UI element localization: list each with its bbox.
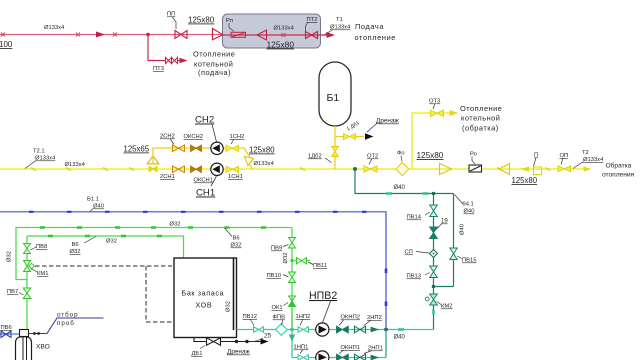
pump SN2 (211, 142, 223, 154)
svg-text:Б1: Б1 (327, 92, 340, 104)
valve PV12 (254, 327, 264, 333)
svg-text:1 Дб1: 1 Дб1 (346, 120, 361, 133)
wire green line B6 lower y=236 (27, 236, 184, 258)
svg-text:проб: проб (57, 320, 75, 327)
leader B6 left (84, 237, 96, 244)
svg-text:Отопление: Отопление (193, 50, 235, 59)
leader Ro (472, 157, 475, 165)
node drain junctions (235, 340, 238, 343)
flow arrow after PT3 (178, 60, 181, 62)
svg-text:котельной: котельной (461, 114, 500, 123)
svg-text:Т2: Т2 (582, 150, 589, 156)
svg-text:ПП: ПП (167, 12, 175, 18)
check valve OKSN1 (filled) (191, 166, 202, 173)
svg-text:ПВ9: ПВ9 (271, 246, 282, 252)
wire PV6 inlet (0, 333, 19, 335)
valve 2NP2 (355, 326, 366, 333)
svg-text:19: 19 (441, 219, 448, 225)
wire red branch down to PT3 (148, 35, 165, 61)
svg-text:125x80: 125x80 (417, 151, 444, 160)
reducer (apex left) (499, 164, 510, 175)
leader 1SN2 (231, 139, 234, 144)
svg-text:ПВ15: ПВ15 (462, 258, 476, 264)
svg-text:КМ1: КМ1 (37, 271, 48, 277)
svg-text:1НП1: 1НП1 (294, 345, 309, 351)
svg-text:Ø32: Ø32 (231, 243, 242, 249)
SECTION: green softened water B6 (0, 222, 327, 360)
valve DB1 (207, 338, 221, 345)
leader 1Db2 (325, 158, 332, 163)
wire PV11 stub (292, 260, 310, 262)
svg-text:Т1: Т1 (336, 17, 343, 23)
leader 2NP1 (364, 351, 372, 354)
leader 19 (437, 224, 443, 230)
leader KM2 (437, 302, 442, 305)
svg-text:125x65: 125x65 (124, 145, 150, 154)
instrument box (gray) (223, 14, 321, 48)
svg-text:Обратка: Обратка (606, 162, 632, 170)
weld ticks on yellow main (31, 168, 550, 171)
leader PV15 (457, 256, 462, 259)
svg-text:отопление: отопление (355, 33, 397, 42)
svg-text:1СН1: 1СН1 (228, 174, 243, 180)
svg-text:Ø32: Ø32 (170, 222, 181, 228)
leader SN1 (211, 176, 217, 186)
svg-text:Отопление: Отопление (460, 104, 502, 113)
SECTION: red heating supply T1 (0, 12, 396, 78)
wire tank drop pipe (334, 126, 336, 169)
svg-text:Ро: Ро (470, 152, 477, 158)
svg-text:СП: СП (405, 250, 413, 256)
wire bypass downcomer (244, 148, 250, 157)
wire green drop right x=292 (291, 228, 293, 330)
svg-text:2НП2: 2НП2 (367, 315, 382, 321)
wire drain stub 1Db1 (335, 136, 364, 138)
svg-text:ПВ7: ПВ7 (7, 289, 18, 295)
svg-text:ПВ13: ПВ13 (407, 274, 421, 280)
svg-text:Дренаж: Дренаж (376, 118, 400, 125)
leader PV8 (31, 247, 37, 250)
svg-text:СН1: СН1 (196, 188, 215, 199)
svg-text:125x80: 125x80 (267, 40, 295, 50)
weld tick in box (282, 33, 286, 37)
SECTION: yellow heating return T2 (0, 62, 635, 199)
valve OT3 (431, 110, 444, 117)
flow arrow on red pipe (96, 32, 105, 38)
node tee on yellow main (353, 167, 357, 171)
svg-text:ПВ11: ПВ11 (313, 263, 327, 269)
filter FPV (diamond) (275, 324, 287, 336)
svg-text:отбор: отбор (57, 312, 79, 319)
leader PV9 (283, 245, 289, 247)
svg-text:Дренаж: Дренаж (227, 349, 251, 356)
valve OP (558, 166, 571, 172)
leader KM1 (31, 269, 37, 273)
wire suction header y=329.5 (237, 329, 434, 331)
SECTION: blue water line B1.1 (0, 197, 386, 330)
svg-text:ПВ6: ПВ6 (1, 325, 12, 331)
leader NPV2 (323, 300, 332, 323)
leader T1 (325, 30, 334, 35)
leader OK1 (284, 303, 289, 306)
node tee PV11 (290, 259, 293, 262)
tank Bak zapasa XOV (174, 258, 237, 338)
leader OKNP1 (339, 350, 344, 354)
valve at bypass tee (149, 166, 157, 172)
svg-text:Ø133x4: Ø133x4 (65, 162, 86, 168)
valve PT2 (306, 32, 318, 39)
leader T2.1 (25, 161, 36, 169)
svg-text:Ø133x4: Ø133x4 (254, 161, 275, 167)
drain arrow black (365, 133, 374, 139)
leader OKNP2 (339, 320, 344, 326)
svg-text:Ø40: Ø40 (394, 185, 406, 191)
flow arrow OT3 outlet (450, 110, 459, 116)
check valve OKNP2 (filled) (337, 326, 349, 333)
valve 1NP1 (298, 355, 309, 360)
valve OT2 (364, 166, 377, 172)
pump NPV2 (316, 323, 329, 336)
impulse dashed line KM1 to tank (35, 265, 172, 267)
valve 2SN2 (173, 145, 185, 152)
wire center leg x=433.5 (433, 194, 435, 330)
wire branch to PV15 leg (434, 286, 454, 288)
svg-text:125x80: 125x80 (249, 146, 275, 155)
valve 1SN1 (226, 166, 239, 172)
svg-text:1Дб2: 1Дб2 (308, 154, 322, 160)
weld tick on center leg (432, 310, 435, 315)
svg-text:ПВ10: ПВ10 (267, 273, 281, 279)
leader PV7 (19, 293, 24, 296)
wire OT3 riser (412, 113, 450, 169)
tank B1 (319, 62, 351, 126)
svg-text:НПВ2: НПВ2 (309, 290, 337, 302)
leader PT2 (306, 22, 309, 31)
instrument SP (diamond) (430, 250, 438, 258)
reducer cone at box inlet (213, 29, 224, 40)
reducer 125x65 (apex up) (147, 156, 159, 164)
leader PV11 (308, 262, 313, 265)
leader OP (561, 158, 563, 165)
node junction green/teal (290, 328, 294, 332)
svg-text:Ø133x4: Ø133x4 (35, 156, 56, 162)
leader 1NP2 (300, 319, 303, 326)
wire red main supply pipe y=34.5 (0, 34, 222, 36)
wire suction header 2 y=357.5 (292, 357, 386, 359)
leader PV14 (425, 212, 430, 215)
svg-text:125x80: 125x80 (512, 176, 538, 185)
leader PP (172, 17, 176, 30)
weld tick on red pipe x=78 (76, 33, 80, 37)
valve 1Db1 (344, 134, 356, 140)
leader T2 (573, 162, 584, 169)
leader Drenazh (367, 124, 376, 132)
svg-text:Ø40: Ø40 (394, 335, 406, 341)
weld ticks green upper (40, 226, 266, 228)
svg-text:ОТ2: ОТ2 (367, 154, 378, 160)
leader 1NP1 (300, 350, 303, 354)
leader 2NP2 (364, 320, 371, 326)
flow arrow 2NP2 (371, 327, 379, 333)
svg-text:Подача: Подача (355, 22, 384, 31)
leader B6 right (225, 228, 233, 237)
wire teal drop from yellow main (355, 169, 454, 194)
svg-text:Рп: Рп (226, 18, 233, 24)
check valve OKSN2 (filled) (191, 145, 202, 152)
wire green drop PV8 (26, 236, 28, 331)
weld ticks green lower (48, 235, 162, 237)
svg-text:Ø133x4: Ø133x4 (44, 25, 65, 31)
svg-text:ПВ14: ПВ14 (407, 215, 422, 221)
svg-text:КМ2: КМ2 (441, 304, 452, 310)
valve PV11 (297, 258, 307, 265)
svg-text:25: 25 (264, 333, 272, 340)
valve 1SN2 (226, 145, 239, 151)
leader P (534, 158, 537, 167)
regulator Rp (rect with diagonal) (231, 32, 246, 37)
svg-text:ПВ8: ПВ8 (36, 244, 47, 250)
weld ticks teal top (386, 192, 429, 195)
svg-text:ДБ1: ДБ1 (192, 351, 203, 357)
svg-text:(подача): (подача) (198, 68, 231, 77)
filter Fo (diamond) (396, 163, 409, 176)
svg-text:Т2.1: Т2.1 (33, 149, 45, 155)
softener vessel XVO (16, 337, 32, 360)
leader PV10 (283, 275, 289, 278)
leader OT2 (369, 159, 372, 165)
flow arrow at P (521, 167, 530, 172)
reducer (apex right) (440, 163, 452, 174)
leader FPV (282, 320, 284, 326)
leader PV12 (250, 319, 254, 326)
fitting P (square) (534, 167, 542, 175)
svg-text:отопления: отопления (602, 172, 635, 179)
leader B1.1 (90, 209, 93, 212)
svg-text:Ø133x4: Ø133x4 (583, 157, 604, 163)
svg-text:ПВ12: ПВ12 (243, 314, 257, 320)
weld ticks blue vertical (385, 269, 388, 307)
wire red pipe exit to arrow (320, 34, 329, 36)
leader OT3 (433, 104, 435, 110)
node tee x=433.5 (432, 192, 436, 196)
drain arrow black (261, 339, 269, 345)
vessel head (20, 330, 29, 337)
leader SN2 (212, 124, 217, 142)
wire discharge drop x=386 (385, 330, 387, 358)
svg-text:1СН2: 1СН2 (230, 134, 245, 140)
flow arrow 2NP1 (371, 355, 379, 360)
SECTION: teal feed pumps (237, 167, 477, 360)
svg-text:В1.1: В1.1 (87, 197, 99, 203)
leader PV13 (425, 273, 430, 276)
reducer cone in box (apex left) (257, 30, 267, 40)
valve 1Db2 (vertical) (332, 147, 339, 157)
valve PV10 (vertical) (289, 272, 296, 283)
valve 2SN1 (173, 166, 185, 173)
svg-text:Бак запаса: Бак запаса (182, 289, 225, 298)
valve PP (175, 31, 187, 39)
svg-text:Ø133x4: Ø133x4 (274, 26, 295, 32)
valve PV8 (vertical) (24, 244, 31, 254)
leader 2SN2 (170, 139, 174, 145)
svg-text:Ø40: Ø40 (460, 224, 466, 235)
svg-text:Ø40: Ø40 (93, 204, 104, 210)
weld tick on red pipe x=3 (1, 33, 5, 37)
svg-text:Ø32: Ø32 (70, 249, 81, 255)
svg-text:100: 100 (0, 40, 13, 49)
regulator Ro (rect with diagonal) (469, 165, 482, 172)
svg-text:94.1: 94.1 (463, 202, 474, 208)
valve 1NP2 (298, 327, 309, 333)
svg-text:СН2: СН2 (195, 115, 214, 126)
valve PV13 (vertical) (430, 266, 438, 278)
flow arrow supply outlet (327, 32, 336, 38)
node tee at 286.5 (432, 285, 436, 289)
weld tick on red pipe x=115 (113, 33, 117, 37)
valve 2NP1 (355, 354, 366, 360)
wire green line B6 upper y=227.5 (16, 228, 292, 280)
reducer bypass (tilted) (245, 157, 254, 166)
flow arrow return outlet (584, 166, 592, 171)
leader SP (416, 252, 429, 254)
impulse dashed drop (146, 266, 172, 322)
svg-text:Ø133x4: Ø133x4 (330, 25, 351, 31)
leader Rp (229, 23, 234, 32)
valve PV15 (vertical) (450, 248, 457, 260)
pump NPV1 (316, 351, 329, 360)
valve KM1 (vertical, with actuator) (24, 261, 31, 272)
leader 94.1 (455, 195, 464, 205)
valve 19 (vertical, filled) (430, 227, 438, 239)
svg-text:ОКСН1: ОКСН1 (194, 178, 213, 184)
svg-text:ОК1: ОК1 (272, 305, 283, 311)
check valve OK1 (vertical, lower filled) (289, 296, 296, 301)
leader DB1 (200, 346, 205, 349)
pump SN1 (211, 163, 223, 175)
svg-text:125x80: 125x80 (188, 16, 215, 25)
svg-text:В6: В6 (72, 242, 79, 248)
svg-text:ОП: ОП (560, 153, 569, 159)
valve PT3 (double bowtie) (166, 58, 178, 64)
drain line DB1 (194, 338, 261, 342)
svg-text:Ø32: Ø32 (7, 251, 13, 262)
check valve OKNP1 (filled) (337, 354, 349, 360)
svg-text:ХОВ: ХОВ (196, 301, 213, 310)
weld tick suction (398, 328, 404, 331)
valve PV6 (1, 331, 11, 338)
svg-text:2НП1: 2НП1 (368, 346, 383, 352)
svg-text:Ø32: Ø32 (226, 301, 232, 312)
svg-text:Ø40: Ø40 (464, 209, 475, 215)
wire green stub + down arrow between headers (291, 307, 293, 330)
wire yellow main return pipe y=169 (0, 168, 584, 170)
svg-text:ОКСН2: ОКСН2 (184, 134, 203, 140)
wire bypass riser (153, 148, 244, 164)
leader 25 (248, 338, 263, 342)
svg-text:ХВО: ХВО (36, 344, 50, 351)
valve PV14 (vertical) (430, 205, 438, 217)
internal suction pipe in tank (233, 259, 235, 331)
wire red pipe inside box (222, 34, 320, 36)
valve PV7 (vertical) (23, 288, 31, 299)
valve PV9 (vertical) (289, 238, 296, 249)
node junction blue drop (384, 328, 388, 332)
svg-text:ПТ3: ПТ3 (153, 66, 164, 72)
node junction red tee (146, 33, 150, 37)
sampling line otbor prob (29, 318, 104, 334)
svg-text:2СН1: 2СН1 (160, 174, 175, 180)
svg-text:Ø32: Ø32 (106, 239, 117, 245)
svg-text:В6: В6 (233, 236, 240, 242)
leader Fo (401, 156, 402, 162)
wire right leg PV15 (453, 194, 455, 287)
svg-text:2СН2: 2СН2 (160, 134, 175, 140)
svg-text:(обратка): (обратка) (462, 123, 499, 132)
svg-text:Ø32: Ø32 (283, 253, 289, 264)
svg-text:ОКНП2: ОКНП2 (341, 315, 360, 321)
weld ticks blue horizontal (29, 211, 367, 213)
valve KM2 (vertical, with actuator) (430, 294, 438, 305)
wire blue line B1.1 (0, 212, 386, 330)
